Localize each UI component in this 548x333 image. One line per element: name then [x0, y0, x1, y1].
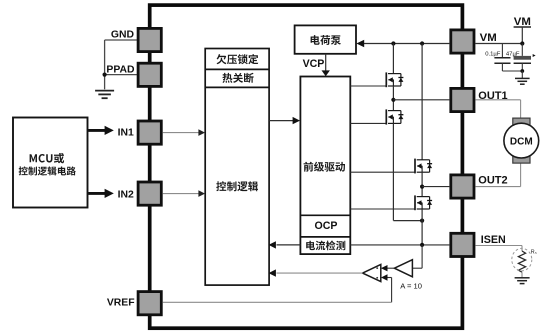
block charge pump (电荷泵): [295, 25, 356, 53]
wire Q1 source to OUT1 node: [392, 86, 394, 111]
wire VREF pin run: [163, 301, 392, 303]
wire ground rail vertical: [104, 40, 106, 89]
wire VM pin to supply node: [475, 43, 522, 45]
junction VM/half-bridge2: [420, 41, 424, 45]
ground (VM caps): [515, 77, 530, 79]
block MCU (MCU或 控制逻辑电路): [13, 118, 88, 208]
wire Q4 source to ISEN line: [421, 209, 423, 245]
svg-text:DCM: DCM: [510, 136, 533, 147]
wire ISEN pin to sense resistor: [475, 245, 522, 247]
svg-text:VCP: VCP: [303, 58, 325, 70]
svg-text:47µF: 47µF: [506, 52, 520, 58]
junction GND/PPAD node: [103, 73, 107, 77]
junction cap ground node: [520, 69, 524, 73]
wire MCU to IN2 (thick arrow): [88, 192, 105, 195]
wire Q2 source over to sense node: [393, 220, 422, 222]
pin IN2: [138, 182, 161, 205]
transistor Q2 (NMOS with body diode): [386, 109, 403, 124]
wire A1 output to A2 input: [387, 267, 394, 269]
transistor Q3 (NMOS with body diode): [415, 159, 432, 174]
motor terminal bottom: [513, 156, 530, 163]
svg-text:▸: ▸: [533, 53, 536, 59]
wire Q3 source to OUT2 node: [421, 172, 423, 196]
label 前级驱动 (pre-driver): [304, 162, 345, 172]
wire gate drive Q1: [350, 85, 386, 87]
junction VM/half-bridge1: [391, 41, 395, 45]
svg-text:OCP: OCP: [315, 220, 338, 232]
label 控制逻辑电路: [19, 166, 76, 175]
svg-text:IN2: IN2: [118, 189, 134, 200]
wire GND pin to ground rail: [105, 39, 137, 41]
wire VM to Q3 drain: [421, 44, 423, 160]
block control-logic column (欠压锁定/热关断/控制逻辑): [205, 49, 269, 286]
wire VM pin to charge pump: [364, 43, 450, 45]
wire VM to Q1 drain: [392, 44, 394, 74]
capacitor C2 47uF (electrolytic): [521, 44, 523, 56]
wire charge pump to pre-driver (VCP arrow): [325, 54, 327, 71]
divider above 电流检测: [300, 236, 350, 238]
resistor Rsense (zigzag): [518, 251, 525, 272]
pin VREF: [138, 292, 161, 315]
pin OUT2: [451, 175, 474, 198]
wire 电流检测 to control logic: [277, 244, 301, 246]
junction sense node: [420, 219, 424, 223]
svg-text:PPAD: PPAD: [106, 65, 135, 76]
pin OUT1: [451, 88, 474, 111]
svg-text:A = 10: A = 10: [400, 282, 422, 291]
label 欠压锁定 (UVLO): [217, 54, 259, 64]
wire capacitor commons: [502, 70, 522, 72]
pin PPAD: [138, 63, 161, 86]
optional-component dashed outline: [512, 248, 532, 270]
wire VREF to A2 lower input: [387, 277, 391, 279]
svg-text:Rₛ: Rₛ: [531, 249, 537, 255]
capacitor C1 0.1uF: [501, 44, 503, 58]
wire OUT2 node to OUT2 pin: [422, 186, 449, 188]
divider above OCP: [300, 214, 350, 216]
svg-text:OUT2: OUT2: [478, 175, 507, 187]
svg-text:IN1: IN1: [118, 128, 134, 139]
op-amp A1 (gain stage): [394, 260, 412, 277]
pin VM: [451, 30, 474, 53]
wire gate drive Q4: [350, 208, 415, 210]
block pre-driver column (前级驱动/OCP/电流检测): [300, 77, 350, 255]
op-amp A2 (comparator to control logic): [363, 264, 381, 281]
label 热关断 (thermal shutdown): [223, 73, 254, 83]
wire OUT2 pin to motor: [475, 186, 520, 188]
label 电荷泵: [311, 35, 341, 45]
IC boundary (driver IC outline): [150, 5, 463, 328]
wire gate drive Q2: [350, 122, 386, 124]
svg-text:VREF: VREF: [107, 297, 135, 308]
wire IN1 to control logic: [163, 132, 199, 134]
pin GND: [138, 28, 161, 51]
pin IN1: [138, 121, 161, 144]
wire 电流检测 to ISEN pin: [350, 244, 449, 246]
wire A2 output to control logic: [277, 272, 363, 274]
op-amp A2 input terminal dots: [376, 267, 378, 269]
label MCU或: [30, 153, 65, 164]
wire OUT1 node to OUT1 pin: [393, 99, 449, 101]
svg-text:VM: VM: [480, 32, 497, 44]
svg-text:GND: GND: [111, 30, 135, 41]
label 电流检测 (current sense): [306, 241, 345, 251]
wire IN2 to control logic: [163, 193, 199, 195]
wire Q2 source down: [392, 123, 394, 220]
motor M1 (DCM): [504, 123, 539, 158]
label 控制逻辑: [216, 181, 258, 191]
ground (sense resistor): [515, 277, 530, 279]
junction node OUT1: [391, 98, 395, 102]
wire control logic to pre-driver: [269, 120, 293, 122]
transistor Q4 (NMOS with body diode): [415, 195, 432, 210]
junction VM supply node: [520, 41, 524, 45]
motor terminal top: [513, 118, 530, 125]
wire MCU to IN1 (thick arrow): [88, 129, 105, 132]
wire gate drive Q3: [350, 171, 415, 173]
junction node OUT2: [420, 185, 424, 189]
pin ISEN: [451, 233, 474, 256]
divider under 热关断: [205, 86, 269, 88]
wire PPAD pin to ground rail: [105, 74, 137, 76]
svg-text:ISEN: ISEN: [481, 234, 506, 246]
junction ISEN/sense chain: [420, 243, 424, 247]
ground (GND/PPAD): [95, 90, 114, 92]
transistor Q1 (NMOS with body diode): [386, 72, 403, 87]
wire OUT1 pin to motor: [475, 99, 520, 101]
svg-text:0.1µF: 0.1µF: [485, 52, 501, 58]
divider under 欠压锁定: [205, 68, 269, 70]
wire ISEN line down to amplifier input: [421, 245, 423, 268]
